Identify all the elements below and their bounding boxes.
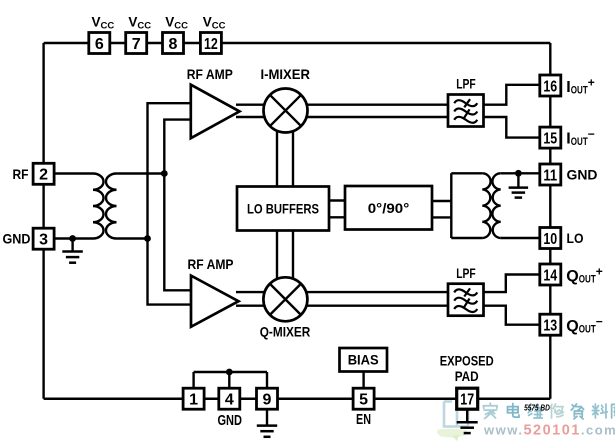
svg-text:12: 12 xyxy=(204,36,218,53)
svg-text:LPF: LPF xyxy=(456,75,476,91)
svg-text:PAD: PAD xyxy=(455,368,479,384)
svg-text:6: 6 xyxy=(95,36,104,53)
svg-text:16: 16 xyxy=(543,78,557,95)
svg-text:EXPOSED: EXPOSED xyxy=(440,353,494,369)
svg-text:LO BUFFERS: LO BUFFERS xyxy=(247,201,319,217)
svg-text:BIAS: BIAS xyxy=(348,352,379,368)
svg-text:LPF: LPF xyxy=(456,265,476,281)
svg-text:5575 BD: 5575 BD xyxy=(524,402,550,412)
svg-text:GND: GND xyxy=(217,413,242,429)
svg-text:GND: GND xyxy=(567,167,598,183)
svg-text:10: 10 xyxy=(543,231,557,248)
svg-text:1: 1 xyxy=(189,392,198,409)
svg-text:13: 13 xyxy=(543,318,557,335)
svg-text:RF AMP: RF AMP xyxy=(187,66,233,82)
svg-text:EN: EN xyxy=(356,412,371,428)
svg-text:0°/90°: 0°/90° xyxy=(368,200,410,216)
svg-text:14: 14 xyxy=(543,267,557,284)
svg-text:4: 4 xyxy=(225,392,234,409)
svg-text:2: 2 xyxy=(39,167,48,184)
svg-text:Q-MIXER: Q-MIXER xyxy=(260,324,311,340)
svg-text:9: 9 xyxy=(263,392,272,409)
svg-text:3: 3 xyxy=(39,232,48,249)
svg-text:I-MIXER: I-MIXER xyxy=(260,66,310,82)
svg-text:17: 17 xyxy=(460,392,474,409)
svg-text:LO: LO xyxy=(567,230,584,246)
svg-text:www.520101.com: www.520101.com xyxy=(483,423,615,439)
svg-text:RF AMP: RF AMP xyxy=(188,256,234,272)
svg-text:8: 8 xyxy=(169,36,178,53)
svg-text:RF: RF xyxy=(13,166,29,182)
svg-text:GND: GND xyxy=(3,231,31,247)
svg-text:7: 7 xyxy=(132,36,141,53)
svg-text:11: 11 xyxy=(543,167,557,184)
svg-text:15: 15 xyxy=(543,130,557,147)
svg-text:5: 5 xyxy=(359,392,368,409)
